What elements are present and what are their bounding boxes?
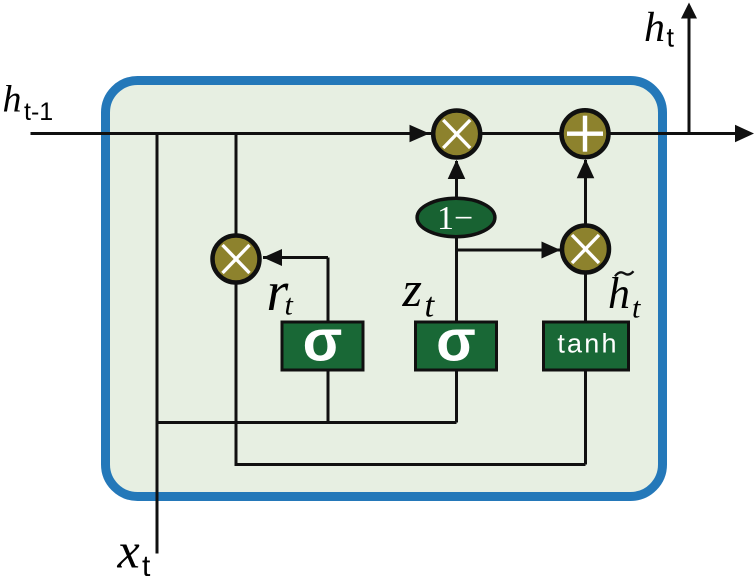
wire: x_t vertical input bbox=[156, 134, 159, 554]
arrowhead up h_t output bbox=[681, 3, 697, 19]
svg-text:σ: σ bbox=[303, 309, 343, 374]
multiplier node (candidate) bbox=[562, 226, 609, 273]
svg-text:t: t bbox=[632, 292, 641, 325]
arrowhead into update multiplier on main line bbox=[410, 125, 430, 142]
sigma box 2 (update gate) bbox=[416, 322, 497, 370]
svg-text:σ: σ bbox=[436, 309, 476, 374]
arrowhead right end of main line bbox=[735, 125, 754, 142]
svg-text:t-1: t-1 bbox=[24, 98, 53, 126]
wire: candidate vertical through x2 and tanh bbox=[584, 160, 587, 465]
svg-text:z: z bbox=[402, 261, 422, 317]
adder node bbox=[562, 110, 609, 157]
wire: z vertical through ellipse and sigma2 bbox=[455, 161, 458, 423]
wire: h_t output vertical bbox=[688, 17, 691, 134]
multiplier node (update gate, on main line) bbox=[433, 111, 480, 158]
svg-text:t: t bbox=[425, 286, 436, 325]
wire: z branch right to candidate multiplier bbox=[457, 249, 561, 252]
arrowhead up into plus node bbox=[577, 159, 595, 178]
svg-text:tanh: tanh bbox=[557, 329, 618, 359]
wire: r branch down-right-up polyline bbox=[236, 134, 586, 465]
svg-text:t: t bbox=[667, 23, 675, 53]
svg-text:h: h bbox=[3, 79, 22, 121]
arrowhead right into candidate multiplier bbox=[542, 242, 561, 259]
arrowhead up into multiply node (z path) bbox=[448, 160, 466, 179]
svg-text:h: h bbox=[608, 269, 630, 318]
wire: main horizontal h line bbox=[31, 132, 737, 135]
sigma box 1 (reset gate) bbox=[282, 322, 363, 370]
wire: lower horizontal bus y=422 bbox=[157, 421, 457, 424]
svg-text:1−: 1− bbox=[437, 200, 473, 237]
svg-text:x: x bbox=[117, 523, 140, 576]
wire: r loop horizontal into r multiplier bbox=[263, 256, 328, 259]
GRU cell body (rounded box) bbox=[106, 81, 663, 497]
arrowhead into r multiplier (left pointing) bbox=[263, 249, 282, 266]
1-minus ellipse bbox=[417, 198, 495, 236]
wire: r loop vertical through sigma1 bbox=[327, 258, 330, 423]
svg-text:t: t bbox=[285, 289, 294, 322]
svg-text:h: h bbox=[644, 5, 665, 51]
multiplier node (reset gate) bbox=[213, 236, 260, 283]
tanh box bbox=[544, 322, 629, 370]
svg-text:t: t bbox=[142, 550, 151, 576]
